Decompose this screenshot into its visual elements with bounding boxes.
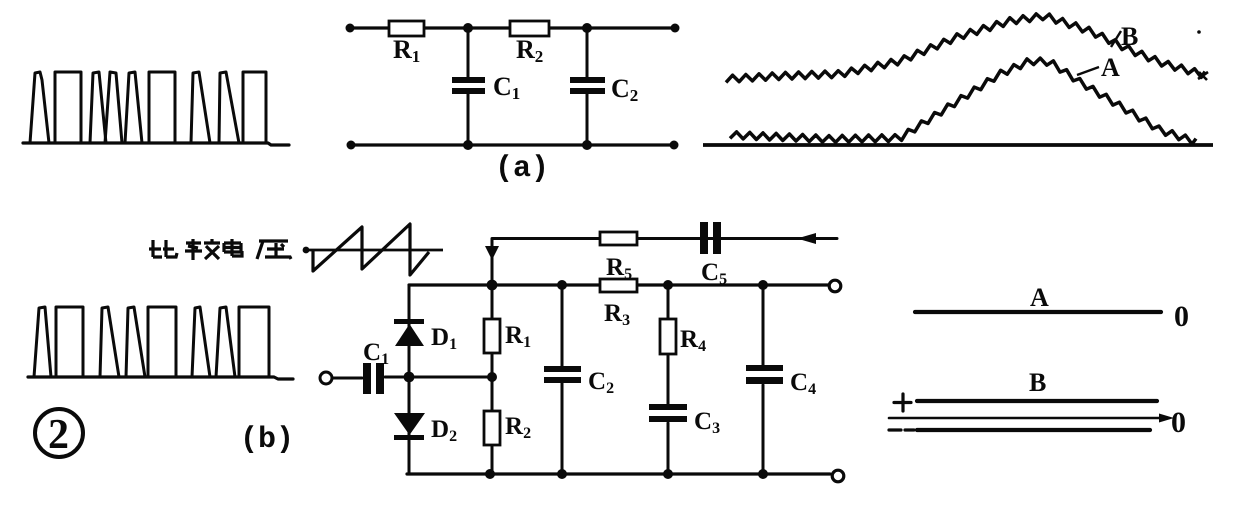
svg-text:0: 0 [1171,406,1186,439]
wire: R1 R2 branch vertical [491,285,494,474]
waveform: top-left pulse 6 (square) [149,72,175,143]
svg-text:(a): (a) [495,152,549,186]
capacitor C1 (circuit a) plates [452,77,485,94]
wire: feedback top wire with corner [492,239,837,286]
svg-text:(b): (b) [240,423,294,457]
node: main circuit junction dots [404,280,768,479]
waveform: top-left pulse 3 (narrow spike) [90,72,106,143]
resistor R2 (main) [484,411,500,445]
waveform: sawtooth comparison voltage [304,224,443,275]
wire: leader line to curve A [1077,67,1099,75]
waveform: (b) pulse 2 (square) [56,307,83,377]
wire: R4 C3 branch vertical [667,285,670,474]
waveform: (b) pulse 8 (square) [239,307,269,377]
label minus sign dashes [889,428,914,431]
wire: circuit (a) top rail [350,26,675,29]
terminal: output bottom open circle [832,470,844,482]
wire: end tick of curve B [1198,72,1208,80]
wire: C1a vertical branch [467,28,470,145]
resistor R4 [660,319,676,354]
wire: input lead to C1 [332,377,362,380]
waveform: top-left pulse 2 (square) [55,72,81,143]
waveform: top-left pulse 7 (narrow spike) [191,72,210,143]
waveform: top-left pulse 1 (narrow spike) [30,72,49,143]
resistor R5 (feedback) [600,232,637,245]
waveform: top-left pulse 9 (square) [243,72,266,143]
waveform: line B bottom [917,428,1150,432]
svg-text:A: A [1101,53,1120,82]
diode D1 [394,319,424,346]
waveform: (b) pulse 6 (narrow spike) [192,307,210,377]
wire: C4 branch vertical [762,285,765,474]
wire: main top rail [409,283,830,286]
waveform: line B top [917,399,1157,403]
svg-text:B: B [1029,368,1046,397]
waveform: output curve A (top-right) [730,58,1196,144]
waveform: top-left pulse 4 (narrow spike) [105,72,122,143]
waveform: top-left pulse 5 (narrow spike) [125,72,142,143]
wire: C2 branch vertical [561,285,564,474]
waveform: output curve B (top-right) [703,14,1213,145]
resistor R2 (circuit a) [510,21,549,36]
node: circuit (a) terminals and junctions [346,23,680,150]
waveform: (b) pulse 1 (narrow spike) [34,307,51,377]
waveform: line B middle (zero axis) [889,417,1162,420]
label: Chinese text 比较电压 (comparison voltage), drawn strokes [149,239,291,260]
wire: main bottom rail [407,472,830,475]
waveform: (b) pulse 3 (narrow spike) [100,307,119,377]
waveform: input pulse train (top-left) baseline [23,143,289,145]
circuit (a) [350,28,675,145]
terminal: output top open circle [829,280,841,292]
arrow: down arrow into top rail node [485,246,499,260]
waveform: (b) pulse 7 (narrow spike) [216,307,235,377]
main circuit wires [332,239,837,475]
resistor R3 (series in rail) [600,279,637,292]
svg-text:0: 0 [1174,300,1189,333]
capacitor C1 (main) plates [363,363,384,394]
node: stray dot top right [1197,30,1201,34]
waveform: top-left pulse 8 (narrow spike) [219,72,239,143]
wire: circuit (a) bottom rail [351,143,674,146]
waveform: line A (bottom-right) [915,310,1161,314]
capacitor C4 plates [746,365,783,384]
node: sawtooth left end dot [303,247,310,254]
arrow: left-pointing arrowhead on feedback wire [797,233,816,244]
waveform: (b) pulse 4 (narrow spike) [126,307,145,377]
svg-text:B: B [1121,22,1138,51]
label: circled figure number 2 [35,409,83,457]
label plus sign [894,394,911,411]
diode D2 [394,413,425,440]
capacitor C5 plates [700,222,721,254]
svg-text:2: 2 [48,412,69,458]
wire: left branch (diodes) vertical [408,285,411,474]
waveform: pulse train (b) baseline [28,307,293,379]
resistor R1 (main) [484,319,500,353]
wire: leader line to curve B [1111,31,1121,47]
capacitor C2 (main) plates [544,366,581,383]
capacitor C2 (circuit a) plates [570,77,605,94]
arrow: right arrowhead on zero axis [1159,414,1174,423]
svg-text:A: A [1030,283,1049,312]
wire: C2a vertical branch [586,28,589,145]
wire: mid wire C1 to R node [385,376,492,379]
waveform: (b) pulse 5 (square) [148,307,176,377]
waveform: top-right baseline [703,143,1213,147]
capacitor C3 plates [649,404,687,422]
resistor R1 (circuit a) [389,21,424,36]
terminal: input open circle [320,372,332,384]
